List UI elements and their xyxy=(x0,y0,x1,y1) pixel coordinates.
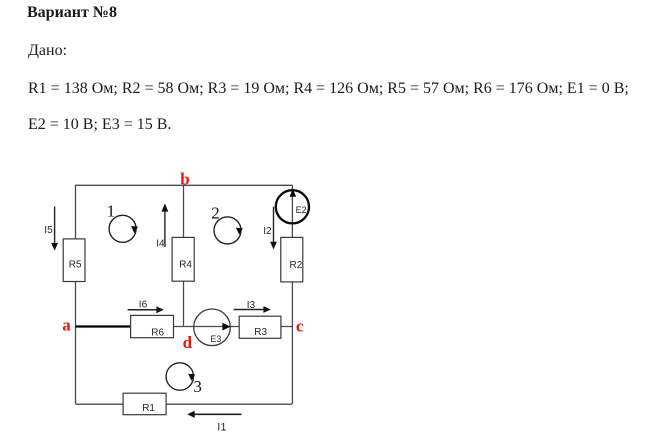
wire bottom rail xyxy=(76,403,293,405)
svg-text:R5: R5 xyxy=(69,260,82,271)
data line 1 xyxy=(28,81,629,97)
resistor R1 xyxy=(123,393,166,415)
node d xyxy=(183,333,193,352)
svg-text:E2: E2 xyxy=(296,205,307,215)
svg-text:I1: I1 xyxy=(217,422,226,434)
svg-text:c: c xyxy=(296,317,304,336)
resistor R2 xyxy=(281,237,303,282)
current arrow I4 xyxy=(156,203,168,249)
current arrow I2 xyxy=(263,207,277,250)
wire middle branch b to d xyxy=(183,185,185,326)
svg-text:3: 3 xyxy=(193,377,202,396)
svg-text:E3: E3 xyxy=(210,334,221,344)
loop 2 xyxy=(211,204,243,244)
wire middle rail a to c xyxy=(76,326,293,328)
source E2 xyxy=(276,189,309,224)
node c xyxy=(296,317,304,336)
svg-text:R3: R3 xyxy=(254,327,267,338)
current arrow I5 xyxy=(44,206,58,250)
wire right branch xyxy=(291,185,293,404)
svg-text:R2: R2 xyxy=(290,260,303,271)
wire thick segment a to R6 xyxy=(76,325,132,327)
svg-text:1: 1 xyxy=(107,202,116,221)
wire left branch xyxy=(75,185,77,404)
source E3 xyxy=(194,309,231,346)
title line xyxy=(27,5,117,21)
loop 3 xyxy=(166,363,202,396)
current arrow I3 xyxy=(234,300,271,313)
node b xyxy=(180,169,189,188)
svg-text:R4: R4 xyxy=(179,259,192,270)
current arrow I6 xyxy=(128,300,164,314)
svg-text:R1: R1 xyxy=(142,403,155,414)
svg-text:I2: I2 xyxy=(263,226,272,237)
svg-text:R6: R6 xyxy=(151,327,164,338)
wire top b-rail xyxy=(76,184,293,186)
resistor R6 xyxy=(131,315,174,338)
svg-text:b: b xyxy=(180,169,189,188)
svg-text:I3: I3 xyxy=(247,300,256,311)
svg-text:2: 2 xyxy=(211,204,220,223)
svg-text:d: d xyxy=(183,333,193,352)
svg-text:I6: I6 xyxy=(139,300,148,311)
svg-text:I4: I4 xyxy=(156,239,165,250)
current arrow I1 xyxy=(187,411,241,434)
loop 1 xyxy=(107,202,138,243)
resistor R4 xyxy=(172,237,194,281)
data line 2 xyxy=(28,117,171,133)
svg-text:a: a xyxy=(62,315,71,334)
node a xyxy=(62,315,71,334)
svg-text:I5: I5 xyxy=(44,225,53,236)
given label xyxy=(28,43,67,59)
resistor R5 xyxy=(63,239,85,282)
resistor R3 xyxy=(239,316,281,338)
